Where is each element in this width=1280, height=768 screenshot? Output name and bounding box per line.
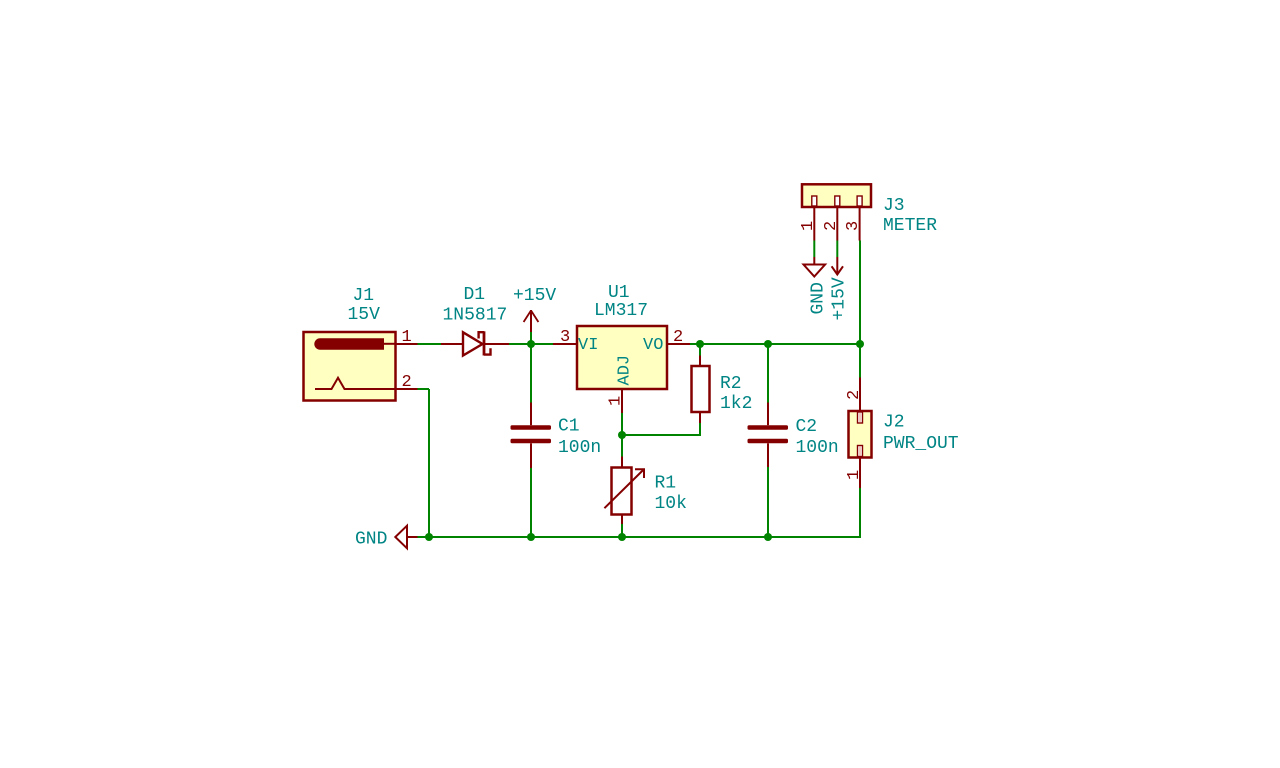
capacitor C2 bottom pin [767, 443, 769, 467]
svg-text:ADJ: ADJ [616, 355, 635, 386]
junction at ADJ node [618, 431, 626, 439]
svg-text:J3: J3 [883, 196, 905, 216]
capacitor C2 bottom plate [748, 439, 789, 444]
diode D1 schottky cathode bar [483, 331, 486, 355]
junction at +15V node [527, 340, 535, 348]
connector J1 barrel pin bar [314, 338, 384, 349]
potentiometer R1 body [612, 468, 632, 515]
connector J2 bottom slot pin mark [859, 447, 861, 456]
connector J3 body [802, 184, 871, 207]
svg-text:2: 2 [673, 328, 683, 347]
connector J2 body [849, 411, 872, 458]
svg-text:1k2: 1k2 [720, 394, 752, 414]
regulator U1 body [577, 326, 667, 389]
connector J1 barrel bar link to pin 1 [383, 343, 396, 345]
junction at output node [856, 340, 864, 348]
svg-text:PWR_OUT: PWR_OUT [883, 434, 959, 454]
capacitor C2 top pin [767, 403, 769, 426]
power symbol +15V stem [530, 310, 532, 332]
connector J2 top pin slot [858, 412, 863, 423]
pin 1 lead of J3 [813, 207, 815, 241]
diode D1 triangle [463, 332, 483, 355]
wire: C2 bottom to ground rail [767, 467, 769, 537]
power symbol +15V under J3 pin2 arrowhead [832, 266, 843, 274]
power symbol GND under J3 pin1 stem [813, 257, 815, 265]
diode D1 schottky bottom hook [484, 348, 491, 354]
power symbol GND under J3 pin1 triangle [804, 265, 826, 277]
svg-text:+15V: +15V [513, 286, 556, 306]
power symbol +15V arrowhead left arm [524, 311, 531, 323]
wire: J3 pin2 green segment [836, 241, 838, 258]
diode D1 schottky top hook [479, 332, 484, 338]
svg-text:LM317: LM317 [594, 301, 648, 321]
wire: J1 pin2 horizontal [418, 388, 430, 390]
capacitor C1 top pin [530, 403, 532, 426]
svg-text:1N5817: 1N5817 [443, 306, 508, 326]
svg-text:2: 2 [822, 221, 841, 231]
connector J2 bottom pin slot [858, 446, 863, 457]
resistor R2 body [692, 366, 710, 412]
wire: VO node down to R2 top [699, 344, 701, 356]
pin 2 of J1 [396, 388, 418, 390]
wire: output node to J2 pin2 [859, 344, 861, 378]
connector J3 pin1 slot [812, 196, 817, 206]
wire: U1 ADJ pin down to junction [621, 413, 623, 457]
pin 2 lead of J3 [836, 207, 838, 241]
svg-text:1: 1 [845, 470, 864, 480]
junction at VO R2 node [696, 340, 704, 348]
wire: R1 bottom to ground rail [621, 524, 623, 537]
svg-text:R1: R1 [655, 474, 677, 494]
wire: U1 VO to output column [690, 343, 860, 345]
potentiometer R1 wiper arrow [604, 469, 643, 508]
svg-text:D1: D1 [464, 285, 486, 305]
svg-text:100n: 100n [796, 438, 839, 458]
connector J2 top slot pin mark [859, 413, 861, 422]
connector J2 pin2 lead [859, 378, 861, 412]
pin 3 lead of J3 [859, 207, 861, 241]
capacitor C1 top plate [511, 425, 552, 430]
wire: J3 pin3 down to output node [859, 241, 861, 345]
svg-text:R2: R2 [720, 374, 742, 394]
svg-text:+15V: +15V [830, 277, 850, 320]
wire: J2 pin1 to ground rail [859, 488, 861, 538]
capacitor C2 top plate [748, 425, 789, 430]
potentiometer R1 bottom pin [621, 515, 623, 525]
wire: main horizontal net J1 pin1 to diode [418, 343, 442, 345]
wire: diode to +15V node to U1 VI [509, 343, 553, 345]
power symbol GND left triangle [395, 526, 407, 549]
wire: C1 bottom to ground rail [530, 468, 532, 537]
pin 1 ADJ of U1 [621, 389, 623, 413]
power symbol +15V under J3 pin2 stem [836, 257, 838, 274]
svg-text:10k: 10k [655, 494, 687, 514]
junction at ground rail C1 [527, 533, 535, 541]
diode D1 anode pin [441, 343, 463, 345]
svg-text:VO: VO [643, 336, 663, 355]
diode D1 cathode pin [484, 343, 509, 345]
svg-text:3: 3 [560, 328, 570, 347]
junction at ground rail R1 [618, 533, 626, 541]
svg-text:U1: U1 [608, 283, 630, 303]
potentiometer R1 top pin [621, 457, 623, 468]
svg-text:C1: C1 [558, 417, 580, 437]
connector J2 pin1 lead [859, 458, 861, 489]
wire: C2 top [767, 344, 769, 403]
svg-text:100n: 100n [558, 438, 601, 458]
pin 3 VI of U1 [553, 343, 577, 345]
wire: J1 pin2 vertical down to ground rail [428, 389, 430, 538]
svg-text:1: 1 [607, 396, 626, 406]
svg-text:3: 3 [844, 221, 863, 231]
wire: R2 bottom vertical [699, 423, 701, 436]
svg-text:METER: METER [883, 216, 937, 236]
svg-text:2: 2 [402, 373, 412, 392]
connector J3 pin2 slot [835, 196, 840, 206]
capacitor C1 bottom pin [530, 443, 532, 468]
junction at ground rail C2 [764, 533, 772, 541]
power symbol +15V arrowhead right arm [531, 311, 538, 323]
svg-text:GND: GND [355, 530, 387, 550]
svg-text:1: 1 [402, 328, 412, 347]
svg-text:GND: GND [809, 282, 829, 314]
junction at ground rail J1 [425, 533, 433, 541]
pin 2 VO of U1 [667, 343, 690, 345]
svg-text:J1: J1 [353, 286, 375, 306]
potentiometer R1 arrowhead [635, 469, 644, 478]
svg-text:1: 1 [799, 221, 818, 231]
svg-text:2: 2 [845, 390, 864, 400]
svg-text:VI: VI [578, 336, 598, 355]
power symbol GND left stem [407, 536, 418, 538]
resistor R2 bottom pin [699, 412, 701, 423]
pin 1 of J1 [396, 343, 418, 345]
wire: +15V symbol stem to node [530, 332, 532, 345]
svg-text:J2: J2 [883, 413, 905, 433]
resistor R2 top pin [699, 356, 701, 367]
svg-text:C2: C2 [796, 417, 818, 437]
junction at C2 top node [764, 340, 772, 348]
wire: ADJ junction to R2 bottom horizontal [622, 434, 700, 436]
capacitor C1 bottom plate [511, 439, 552, 444]
connector J1 sleeve contact zigzag [315, 378, 396, 389]
connector J1 body [304, 332, 396, 401]
wire: node down to C1 [530, 344, 532, 403]
connector J3 pin3 slot [857, 196, 862, 206]
svg-text:15V: 15V [348, 305, 381, 325]
wire: J3 pin1 green segment [813, 241, 815, 258]
wire: ground rail [418, 536, 861, 538]
